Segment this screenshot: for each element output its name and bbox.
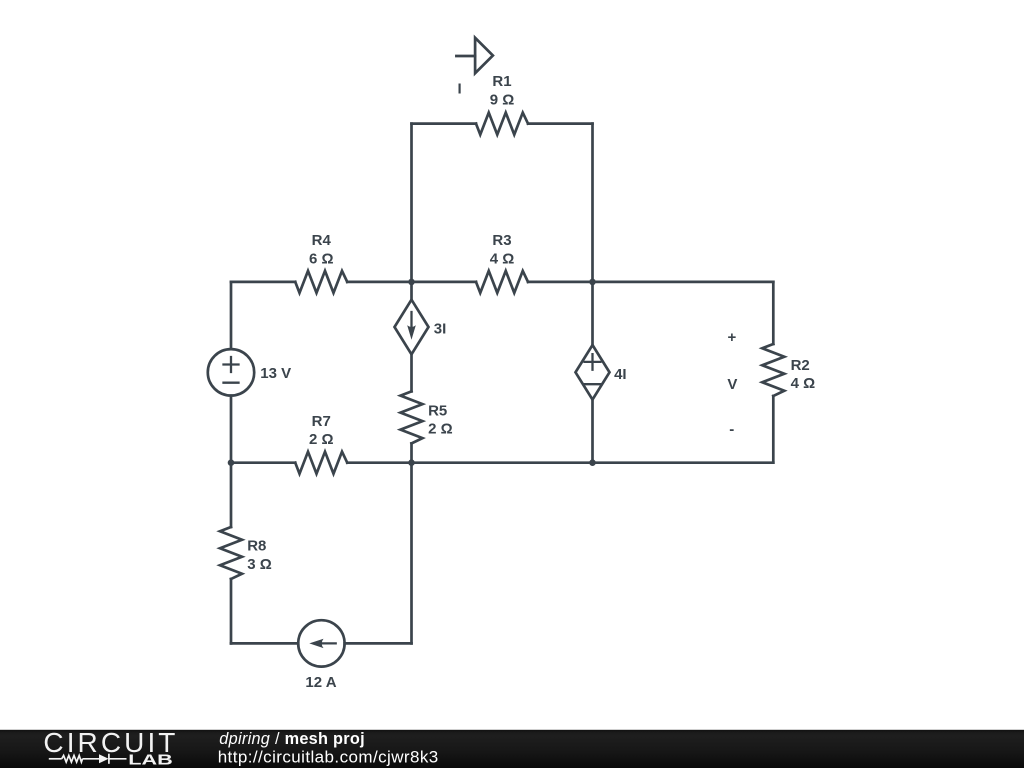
svg-text:2 Ω: 2 Ω bbox=[309, 431, 334, 448]
wire bbox=[410, 443, 413, 462]
resistor R2 bbox=[762, 344, 784, 396]
svg-text:2 Ω: 2 Ω bbox=[428, 421, 453, 438]
wire bbox=[231, 461, 295, 464]
wire bbox=[528, 122, 593, 125]
svg-text:I: I bbox=[458, 81, 462, 98]
node A bbox=[408, 279, 415, 286]
wire bbox=[528, 281, 593, 284]
wire bbox=[230, 396, 233, 463]
svg-text:R7: R7 bbox=[312, 413, 331, 430]
voltage source V1 13V bbox=[208, 349, 254, 395]
svg-text:R2: R2 bbox=[791, 357, 810, 374]
wire bbox=[772, 396, 775, 463]
wire bbox=[772, 282, 775, 344]
wire bbox=[593, 281, 774, 284]
resistor R8 bbox=[220, 527, 242, 579]
svg-text:R5: R5 bbox=[428, 402, 447, 419]
resistor R4 bbox=[295, 271, 347, 293]
wire bbox=[230, 282, 233, 349]
svg-text:LAB: LAB bbox=[128, 751, 173, 768]
node B bbox=[589, 279, 596, 286]
svg-text:dpiring / mesh proj: dpiring / mesh proj bbox=[219, 730, 365, 748]
footer bar bbox=[0, 730, 1024, 768]
svg-text:6 Ω: 6 Ω bbox=[309, 250, 334, 267]
node C bbox=[228, 459, 235, 466]
svg-text:R8: R8 bbox=[247, 537, 266, 554]
wire bbox=[412, 122, 477, 125]
svg-text:12 A: 12 A bbox=[305, 674, 336, 691]
svg-text:V: V bbox=[727, 376, 737, 393]
svg-text:3 Ω: 3 Ω bbox=[247, 556, 272, 573]
resistor R7 bbox=[295, 452, 347, 474]
svg-text:R1: R1 bbox=[492, 73, 511, 90]
node E bbox=[589, 459, 596, 466]
svg-text:-: - bbox=[729, 421, 734, 438]
wire bbox=[230, 463, 233, 527]
svg-text:4 Ω: 4 Ω bbox=[791, 375, 816, 392]
wire bbox=[345, 642, 412, 645]
wire bbox=[410, 282, 413, 300]
wire bbox=[591, 282, 594, 345]
svg-text:9 Ω: 9 Ω bbox=[490, 92, 515, 109]
svg-text:http://circuitlab.com/cjwr8k3: http://circuitlab.com/cjwr8k3 bbox=[218, 748, 439, 767]
resistor R3 bbox=[476, 271, 528, 293]
wire bbox=[231, 281, 295, 284]
svg-text:R3: R3 bbox=[492, 232, 511, 249]
current source I1 12A bbox=[298, 620, 344, 666]
wire bbox=[410, 124, 413, 282]
wire bbox=[410, 463, 413, 644]
resistor R5 bbox=[401, 391, 423, 443]
wire bbox=[412, 281, 477, 284]
svg-text:3I: 3I bbox=[434, 321, 447, 338]
wire bbox=[347, 461, 411, 464]
svg-text:4 Ω: 4 Ω bbox=[490, 250, 515, 267]
svg-text:R4: R4 bbox=[312, 232, 332, 249]
svg-text:+: + bbox=[728, 329, 737, 346]
wire bbox=[591, 400, 594, 463]
dependent voltage source 4I bbox=[576, 345, 610, 400]
wire bbox=[591, 124, 594, 282]
wire bbox=[231, 642, 298, 645]
wire bbox=[412, 461, 593, 464]
resistor R1 bbox=[476, 113, 528, 135]
wire bbox=[230, 579, 233, 643]
wire bbox=[347, 281, 411, 284]
wire bbox=[410, 354, 413, 391]
dependent current source 3I bbox=[395, 300, 429, 355]
current direction arrow I bbox=[456, 38, 493, 73]
svg-text:4I: 4I bbox=[614, 366, 627, 383]
wire bbox=[593, 461, 774, 464]
logo resistor-diode glyph bbox=[49, 754, 127, 764]
node D bbox=[408, 459, 415, 466]
svg-text:13 V: 13 V bbox=[260, 365, 291, 382]
